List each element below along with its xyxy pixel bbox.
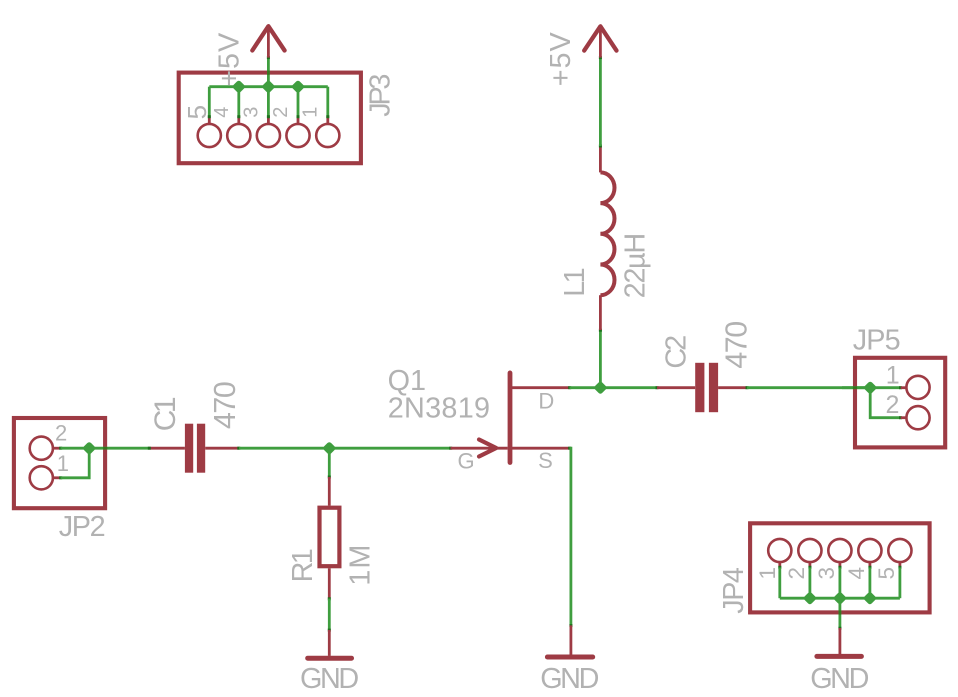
svg-text:D: D — [538, 388, 554, 413]
pin lead R1 bottom — [328, 568, 331, 598]
pin lead C1 right — [205, 447, 239, 450]
svg-text:5: 5 — [182, 105, 212, 119]
junction JP3 pin4 — [232, 80, 246, 94]
pin lead Q1 source — [512, 447, 570, 450]
pin connection dot R1 top — [328, 476, 331, 479]
pin lead JP2-1 — [53, 476, 60, 479]
svg-text:4: 4 — [844, 567, 869, 580]
svg-text:470: 470 — [719, 322, 753, 369]
pin lead L1 top — [599, 146, 602, 172]
pin circle JP3-2 — [286, 124, 309, 147]
pin connection dot L1 top — [599, 145, 602, 148]
pin connection dot JP3-4 — [237, 115, 240, 118]
transistor Q1 channel bar — [508, 373, 513, 463]
pin circle JP2-1 — [30, 466, 53, 489]
svg-text:2: 2 — [270, 107, 292, 118]
pin connection dot JP4-2 — [808, 566, 811, 569]
pin lead JP2-2 — [53, 447, 60, 450]
svg-text:JP3: JP3 — [364, 75, 396, 117]
wire source to GND — [570, 448, 571, 625]
wire over border blend (JP4) — [839, 610, 842, 614]
svg-text:S: S — [538, 448, 553, 473]
pin connection dot JP4-1 — [778, 566, 781, 569]
capacitor C1 left plate — [185, 424, 193, 473]
junction JP3 pin2 — [291, 80, 305, 94]
pin connection dot source GND — [569, 624, 572, 627]
pin lead GND (JP4) — [839, 628, 842, 654]
pin connection dot JP4-3 — [838, 566, 841, 569]
connector JP3 box — [179, 73, 361, 164]
pin circle JP2-2 — [30, 437, 53, 460]
pin circle JP5-1 — [906, 376, 929, 399]
svg-text:1M: 1M — [344, 543, 376, 585]
wire JP4 bus — [780, 597, 900, 600]
ground symbol bar (JP4) — [817, 654, 862, 659]
resistor R1 body — [320, 508, 340, 567]
svg-text:C1: C1 — [149, 397, 182, 431]
svg-text:GND: GND — [810, 663, 868, 695]
junction JP4 pin3 — [833, 591, 847, 605]
wire junction to R1 — [328, 448, 331, 477]
wire JP4 to GND — [839, 598, 842, 628]
junction JP2 — [82, 441, 96, 455]
wire JP2 pin1 elbow — [61, 448, 90, 478]
supply stem +5V (JP3) — [267, 28, 270, 58]
svg-text:2: 2 — [885, 391, 899, 419]
pin circle JP3-3 — [257, 124, 280, 147]
svg-text:2: 2 — [784, 567, 809, 580]
pin lead JP4-5 — [899, 562, 902, 567]
wire JP3 pin3 stub — [267, 87, 270, 118]
pin connection dot JP3-3 — [267, 115, 270, 118]
pin circle JP4-2 — [798, 539, 821, 562]
pin connection dot L1 bottom — [599, 329, 602, 332]
pin lead JP3-5 — [208, 117, 211, 124]
pin lead JP4-3 — [839, 562, 842, 567]
wire JP3 pin5 stub — [208, 87, 211, 118]
pin lead JP3-3 — [267, 117, 270, 124]
pin circle JP4-4 — [858, 539, 881, 562]
pin lead JP4-2 — [809, 562, 812, 567]
wire JP3 pin2 stub — [297, 87, 300, 118]
svg-text:C2: C2 — [660, 336, 692, 369]
wire R1 to GND — [328, 599, 331, 630]
pin connection dot C2 right — [746, 386, 749, 389]
pin circle JP3-5 — [198, 124, 221, 147]
pin connection dot JP2-2 — [59, 447, 62, 450]
wire node to C2 — [600, 386, 657, 389]
pin connection dot JP5-2 — [899, 416, 902, 419]
pin lead Q1 gate — [451, 447, 508, 450]
pin connection dot gate — [449, 447, 452, 450]
pin circle JP4-3 — [828, 539, 851, 562]
pin circle JP3-1 — [316, 124, 339, 147]
pin circle JP3-4 — [227, 124, 250, 147]
capacitor C2 left plate — [695, 363, 704, 412]
junction JP4 pin2 — [803, 591, 817, 605]
supply symbol +5V (L1) — [584, 26, 616, 50]
pin connection dot C1 right — [237, 447, 240, 450]
supply symbol +5V (JP3) — [252, 26, 284, 50]
svg-text:1: 1 — [755, 567, 780, 580]
pin lead JP3-4 — [237, 117, 240, 124]
pin lead JP5-1 — [901, 386, 906, 389]
pin connection dot +5V riser — [267, 56, 270, 59]
svg-text:JP2: JP2 — [59, 511, 105, 543]
wire C2 to JP5 — [747, 386, 870, 389]
svg-text:JP5: JP5 — [853, 324, 900, 356]
pin connection dot JP5-1 — [899, 386, 902, 389]
svg-text:1: 1 — [57, 451, 69, 476]
pin connection dot JP3-5 — [208, 115, 211, 118]
pin connection dot GND (JP4) — [838, 627, 841, 630]
wire JP5 pin1 — [842, 386, 901, 389]
wire node to L1 — [599, 330, 602, 388]
pin lead Q1 drain — [512, 386, 570, 389]
wire JP5 pin2 elbow — [870, 388, 901, 418]
svg-text:GND: GND — [540, 663, 598, 695]
pin lead JP4-1 — [778, 562, 781, 567]
pin circle JP4-5 — [888, 539, 911, 562]
pin lead JP3-2 — [297, 117, 300, 124]
svg-text:3: 3 — [241, 107, 263, 118]
wire C1 to R1 junction — [239, 447, 329, 450]
capacitor C2 right plate — [709, 363, 718, 412]
wire JP3 pin1 stub — [326, 87, 329, 118]
pin connection dot JP3-2 — [297, 115, 300, 118]
svg-text:+5V: +5V — [545, 31, 577, 86]
wire junction to gate — [329, 447, 450, 450]
connector JP4 box — [750, 523, 930, 612]
junction JP4 pin4 — [863, 591, 877, 605]
svg-text:2: 2 — [55, 421, 67, 446]
wire over border blend (JP2) — [103, 447, 107, 450]
wire JP4 pin2 stub — [809, 568, 812, 599]
svg-text:G: G — [458, 448, 475, 473]
pin connection dot JP2-1 — [59, 476, 62, 479]
pin lead GND (source) — [570, 625, 573, 654]
svg-text:4: 4 — [211, 107, 233, 118]
pin lead C1 left — [149, 447, 185, 450]
connector JP2 box — [14, 418, 105, 508]
pin circle JP5-2 — [906, 406, 929, 429]
svg-text:1: 1 — [886, 362, 900, 390]
svg-text:L1: L1 — [559, 268, 591, 296]
pin connection dot C2 left — [656, 386, 659, 389]
junction gate/R1 — [322, 441, 336, 455]
junction drain node — [593, 381, 607, 395]
wire JP4 pin5 stub — [899, 568, 902, 599]
gate arrow Q1 — [479, 440, 496, 457]
pin circle JP4-1 — [768, 539, 791, 562]
capacitor C1 right plate — [197, 424, 205, 473]
wire drain to node — [570, 386, 601, 389]
supply stem +5V (L1) — [599, 28, 602, 58]
svg-text:2N3819: 2N3819 — [388, 393, 491, 425]
wire JP4 pin3 stub — [839, 568, 842, 599]
junction JP5 — [863, 381, 877, 395]
pin connection dot +5V (L1) — [599, 56, 602, 59]
wire JP3 bus — [209, 85, 327, 88]
pin lead R1 top — [328, 477, 331, 506]
wire JP4 pin4 stub — [869, 568, 872, 599]
pin connection dot JP3-1 — [326, 115, 329, 118]
wire L1 to +5V — [599, 58, 602, 146]
pin connection dot GND (R1) — [328, 629, 331, 632]
ground symbol bar (R1) — [308, 656, 352, 661]
pin lead JP4-4 — [869, 562, 872, 567]
svg-text:JP4: JP4 — [718, 567, 750, 614]
wire over border blend (JP3) — [267, 71, 270, 75]
wire over border blend (JP5) — [853, 386, 857, 389]
svg-text:3: 3 — [814, 567, 839, 580]
wire JP4 pin1 stub — [778, 568, 781, 599]
wire +5V riser — [267, 58, 270, 87]
pin connection dot JP4-4 — [868, 566, 871, 569]
pin lead JP5-2 — [901, 416, 906, 419]
svg-text:+5V: +5V — [213, 32, 245, 87]
pin lead C2 left — [657, 386, 695, 389]
pin lead JP3-1 — [326, 117, 329, 124]
svg-text:470: 470 — [208, 382, 242, 429]
inductor L1 coil — [600, 172, 614, 295]
pin connection dot C1 left — [148, 447, 151, 450]
svg-text:GND: GND — [300, 663, 358, 695]
svg-text:5: 5 — [874, 567, 899, 580]
junction JP3 pin3 — [261, 80, 275, 94]
pin connection dot drain — [568, 386, 571, 389]
wire JP3 pin4 stub — [237, 87, 240, 118]
connector JP5 box — [855, 358, 945, 448]
svg-text:R1: R1 — [287, 549, 319, 582]
pin connection dot JP4-5 — [898, 566, 901, 569]
pin lead GND (R1) — [328, 630, 331, 656]
pin lead C2 right — [718, 386, 747, 389]
ground symbol bar (source) — [547, 655, 592, 660]
svg-text:22µH: 22µH — [620, 234, 652, 298]
svg-text:1: 1 — [300, 107, 322, 118]
wire JP2 pin2 to junction — [61, 447, 150, 450]
pin connection dot source — [568, 447, 571, 450]
pin connection dot R1 bottom — [328, 597, 331, 600]
pin lead L1 bottom — [599, 295, 602, 330]
